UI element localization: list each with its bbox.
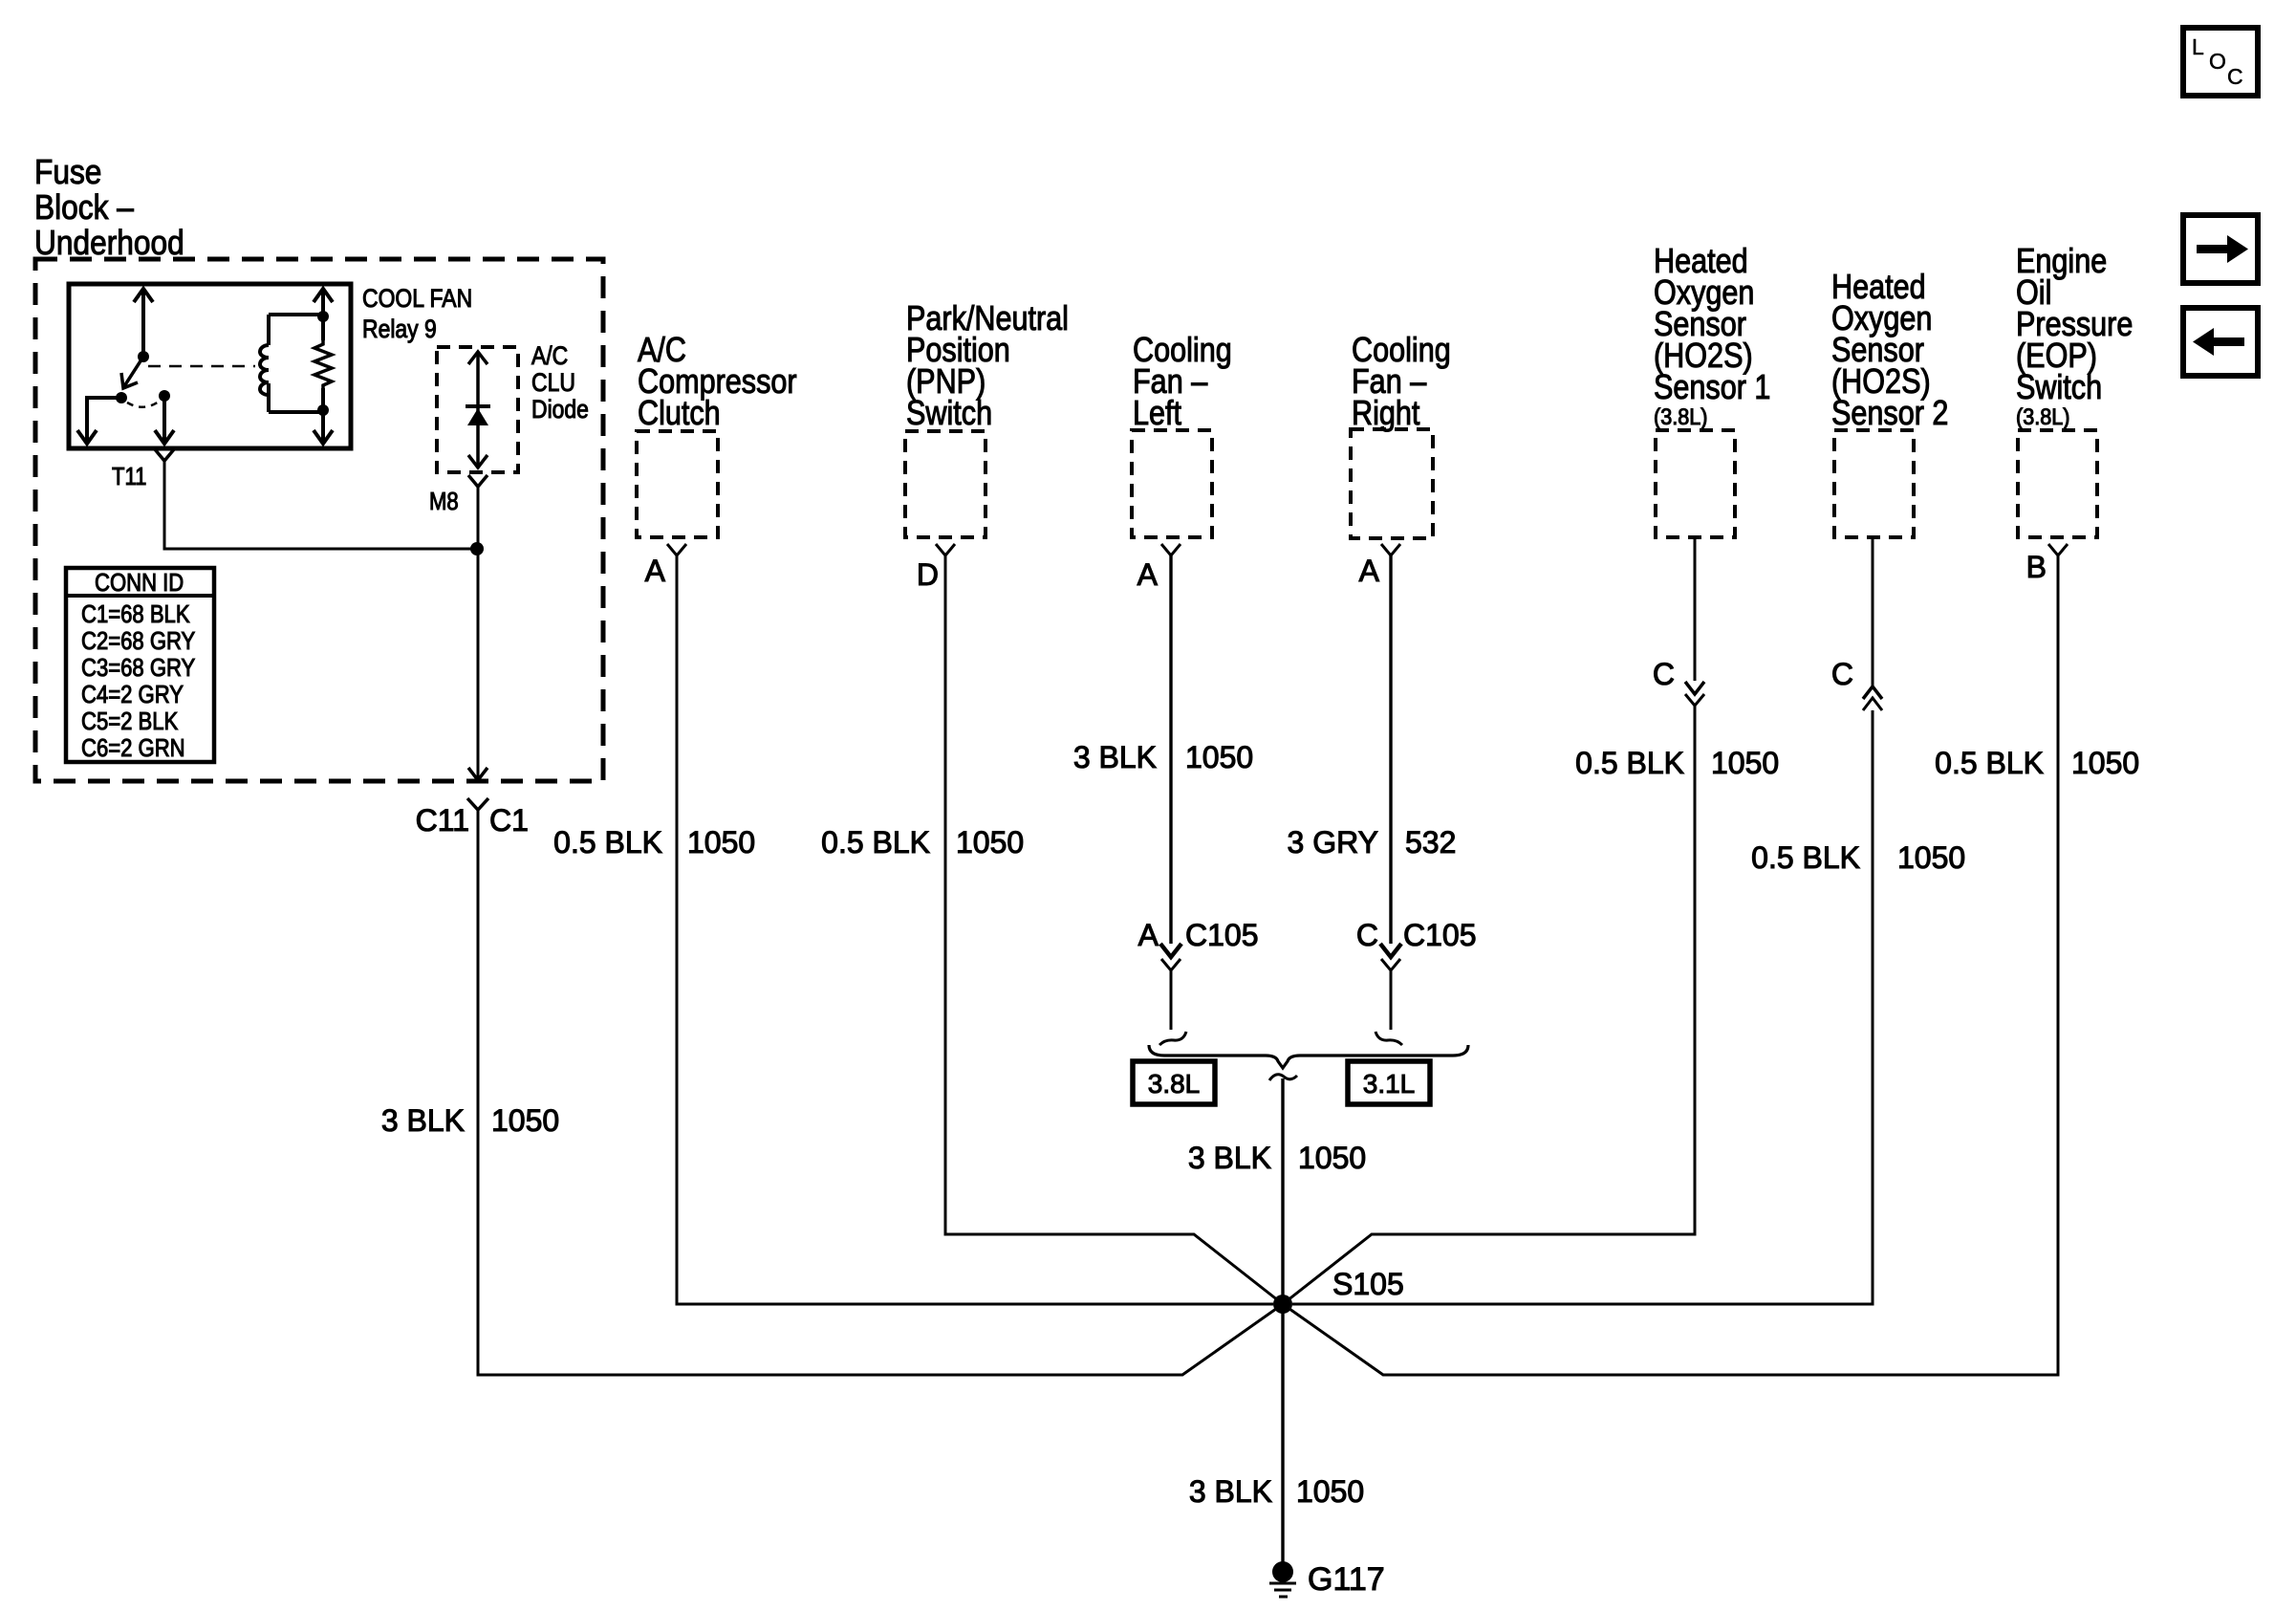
- svg-text:Fuse: Fuse: [34, 153, 101, 191]
- svg-text:Left: Left: [1133, 395, 1182, 433]
- connector pin C pass-through (up arrow + chevron): [1863, 686, 1882, 710]
- svg-text:Switch: Switch: [906, 395, 992, 433]
- splice S105 dot: [1273, 1295, 1292, 1314]
- CONN ID table box: [66, 568, 214, 762]
- squiggle at top of ground trunk wire: [1269, 1075, 1297, 1080]
- wire HO2S1 to S105 (0.5 BLK 1050): [1283, 706, 1695, 1304]
- relay T11 contact dot: [159, 390, 170, 402]
- relay switch movable arm with arrowhead: [121, 357, 143, 388]
- engine option 3.8L box: [1133, 1061, 1215, 1104]
- svg-text:C: C: [2227, 64, 2243, 89]
- wire HO2S2 upper segment: [1872, 537, 1874, 686]
- svg-text:C1=68 BLK: C1=68 BLK: [81, 600, 190, 628]
- relay actuation dashed link: [148, 365, 255, 368]
- svg-text:A: A: [645, 554, 666, 588]
- component HO2S sensor 2 dashed box: [1834, 430, 1914, 537]
- diode label A/C CLU Diode: [531, 341, 589, 424]
- legend LOC box: [2183, 28, 2258, 96]
- svg-text:T11: T11: [112, 463, 146, 490]
- svg-text:C3=68 GRY: C3=68 GRY: [81, 654, 195, 682]
- svg-text:3 BLK: 3 BLK: [1189, 1474, 1272, 1509]
- svg-text:A/C: A/C: [531, 341, 568, 370]
- connector Y pin B of EOP switch: [2048, 544, 2068, 555]
- wire below C105 left with end hook: [1159, 970, 1186, 1045]
- relay switch common pin (top arrow): [134, 289, 153, 357]
- svg-text:Clutch: Clutch: [638, 395, 721, 433]
- svg-text:1050: 1050: [491, 1103, 559, 1138]
- svg-text:C: C: [1356, 918, 1378, 952]
- svg-text:CONN ID: CONN ID: [95, 569, 184, 597]
- relay K cool fan relay 9 box: [69, 284, 351, 448]
- wire EOP switch to S105 (0.5 BLK 1050): [1283, 555, 2058, 1375]
- svg-text:3 GRY: 3 GRY: [1288, 825, 1378, 860]
- svg-text:0.5 BLK: 0.5 BLK: [821, 825, 930, 860]
- relay coil pin line with double arrowheads: [314, 289, 333, 444]
- component HO2S sensor 1 dashed box: [1656, 430, 1735, 537]
- wire A/C compressor clutch to S105 (0.5 BLK 1050): [677, 555, 1273, 1304]
- connector Y pin A of cooling fan right: [1381, 544, 1400, 555]
- svg-text:1050: 1050: [687, 825, 755, 860]
- svg-text:Diode: Diode: [531, 395, 589, 424]
- relay switch NC contact dot: [116, 392, 127, 403]
- svg-text:A: A: [1137, 557, 1159, 592]
- legend LOC letters: [2192, 34, 2243, 89]
- svg-text:(3.8L): (3.8L): [1654, 403, 1707, 429]
- svg-text:3 BLK: 3 BLK: [1188, 1141, 1271, 1175]
- svg-text:G117: G117: [1308, 1561, 1385, 1598]
- diode D a/c clu diode dashed box: [437, 347, 518, 472]
- fuse block dashed border: [35, 259, 603, 781]
- relay pin wire to T11 with arrowhead: [155, 396, 174, 444]
- connector Y pin D of PNP switch: [936, 544, 955, 555]
- terminal M8 connector Y: [468, 475, 487, 487]
- svg-text:3.8L: 3.8L: [1148, 1069, 1201, 1099]
- legend left-arrow box: [2183, 308, 2258, 376]
- legend right arrow: [2197, 235, 2248, 263]
- trunk wire brace to S105 to G117 (3 BLK 1050): [1281, 1078, 1284, 1572]
- relay coil L: [260, 315, 323, 412]
- junction dot at M8 wire: [470, 542, 484, 555]
- svg-text:0.5 BLK: 0.5 BLK: [553, 825, 662, 860]
- svg-text:1050: 1050: [1185, 740, 1253, 774]
- svg-text:C: C: [1653, 657, 1675, 691]
- diode symbol (bar and triangle): [466, 404, 490, 408]
- connector Y pin A of cooling fan left: [1161, 544, 1180, 555]
- component cooling fan right label: [1352, 332, 1451, 433]
- svg-text:0.5 BLK: 0.5 BLK: [1751, 840, 1860, 875]
- component HO2S sensor 2 label: [1831, 269, 1948, 433]
- svg-text:C11: C11: [416, 803, 469, 838]
- component A/C compressor clutch dashed box: [637, 431, 718, 537]
- svg-text:Block –: Block –: [34, 188, 134, 227]
- svg-text:3 BLK: 3 BLK: [381, 1103, 465, 1138]
- svg-text:S105: S105: [1332, 1267, 1404, 1301]
- wire below C105 right with end hook: [1375, 970, 1402, 1045]
- connector C11/C1 Y symbol: [467, 798, 488, 810]
- relay pin 87 wire left with arrowhead: [77, 398, 121, 444]
- svg-text:L: L: [2192, 34, 2204, 59]
- component A/C compressor clutch label: [638, 332, 797, 433]
- svg-text:Relay 9: Relay 9: [362, 315, 437, 343]
- svg-text:1050: 1050: [2071, 746, 2139, 780]
- svg-text:C105: C105: [1185, 918, 1259, 952]
- svg-text:M8: M8: [429, 488, 459, 515]
- wire cooling fan right (3 GRY 532): [1389, 555, 1392, 944]
- wire PNP switch to S105 (0.5 BLK 1050): [945, 555, 1283, 1304]
- svg-text:3.1L: 3.1L: [1363, 1069, 1416, 1099]
- wire HO2S2 to S105 (0.5 BLK 1050): [1292, 710, 1873, 1304]
- engine option 3.1L box: [1348, 1061, 1430, 1104]
- svg-text:CLU: CLU: [531, 368, 575, 397]
- component EOP switch dashed box: [2018, 430, 2097, 537]
- svg-text:C6=2 GRN: C6=2 GRN: [81, 734, 185, 762]
- legend left arrow: [2193, 328, 2244, 356]
- svg-text:O: O: [2209, 49, 2226, 74]
- svg-text:0.5 BLK: 0.5 BLK: [1575, 746, 1684, 780]
- component EOP switch label: [2016, 243, 2133, 430]
- svg-text:C105: C105: [1403, 918, 1477, 952]
- svg-text:3 BLK: 3 BLK: [1073, 740, 1157, 774]
- svg-text:C: C: [1831, 657, 1853, 691]
- component cooling fan left dashed box: [1132, 430, 1212, 537]
- arrowhead at fuse block border exit: [468, 767, 487, 780]
- svg-text:532: 532: [1405, 825, 1456, 860]
- svg-text:Underhood: Underhood: [34, 224, 184, 262]
- svg-text:Right: Right: [1352, 395, 1420, 433]
- svg-text:D: D: [917, 557, 939, 592]
- svg-text:Sensor 2: Sensor 2: [1831, 395, 1948, 433]
- svg-text:C5=2 BLK: C5=2 BLK: [81, 708, 178, 735]
- svg-text:1050: 1050: [1711, 746, 1779, 780]
- connector pin C pass-through (down arrow + chevron): [1685, 682, 1704, 706]
- svg-text:Sensor 1: Sensor 1: [1654, 369, 1770, 407]
- svg-text:COOL FAN: COOL FAN: [362, 284, 472, 313]
- svg-text:0.5 BLK: 0.5 BLK: [1935, 746, 2044, 780]
- relay resistor R (parallel): [314, 340, 332, 388]
- wire T11 to M8 junction: [164, 461, 477, 549]
- svg-text:1050: 1050: [1897, 840, 1965, 875]
- legend right-arrow box: [2183, 215, 2258, 283]
- relay label COOL FAN Relay 9: [362, 284, 472, 343]
- svg-text:B: B: [2026, 550, 2047, 584]
- engine option brace: [1149, 1045, 1468, 1068]
- component cooling fan right dashed box: [1351, 429, 1433, 538]
- svg-text:C1: C1: [489, 803, 529, 838]
- CONN ID table header separator: [66, 594, 214, 598]
- svg-text:(3.8L): (3.8L): [2016, 403, 2069, 429]
- relay switch common node dot: [138, 351, 149, 362]
- svg-text:1050: 1050: [956, 825, 1024, 860]
- svg-text:1050: 1050: [1298, 1141, 1366, 1175]
- ground G117 symbol: [1269, 1561, 1296, 1597]
- connector C105 pin A arrowhead and chevron: [1160, 944, 1181, 970]
- svg-text:C4=2 GRY: C4=2 GRY: [81, 681, 184, 708]
- component PNP switch label: [906, 300, 1069, 433]
- terminal T11 connector Y: [155, 449, 174, 461]
- component HO2S sensor 1 label: [1654, 243, 1770, 430]
- wire HO2S1 upper segment: [1694, 537, 1697, 681]
- connector C105 pin C arrowhead and chevron: [1380, 944, 1401, 970]
- wire C1 from fuse block to S105 (3 BLK 1050): [478, 810, 1283, 1375]
- fuse block FB underhood label: [34, 153, 184, 262]
- wire cooling fan left (3 BLK 1050): [1169, 555, 1172, 944]
- relay switch arc (dashed contact throw): [127, 402, 159, 407]
- svg-text:1050: 1050: [1296, 1474, 1364, 1509]
- svg-text:C2=68 GRY: C2=68 GRY: [81, 627, 195, 655]
- svg-text:Switch: Switch: [2016, 369, 2102, 407]
- relay coil node dots: [317, 311, 329, 322]
- wire M8 down to fuse block exit: [477, 487, 480, 767]
- connector Y pin A of A/C compressor clutch: [667, 544, 686, 555]
- component cooling fan left label: [1133, 332, 1232, 433]
- svg-text:A: A: [1138, 918, 1159, 952]
- svg-text:A: A: [1359, 554, 1380, 588]
- diode vertical wire with up and down arrowheads: [468, 352, 487, 468]
- component PNP switch dashed box: [905, 431, 986, 537]
